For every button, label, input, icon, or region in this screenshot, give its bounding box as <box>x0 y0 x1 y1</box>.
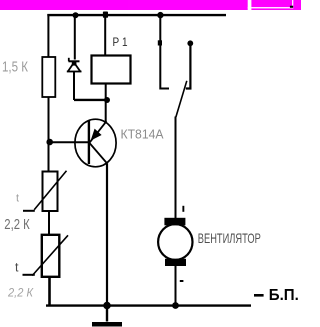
thermistor RK1 body <box>43 172 58 212</box>
node: base junction <box>46 139 53 146</box>
wire: lever to fan <box>175 117 177 219</box>
thermistor RK1 diagonal <box>34 171 66 210</box>
wire: bottom rail <box>46 304 251 306</box>
thermistor RK2 body <box>42 235 60 277</box>
contact lever <box>176 81 187 117</box>
node: top rail / relay branch <box>103 12 108 18</box>
contact right terminal dot <box>187 40 193 46</box>
wire: base wire <box>49 141 89 143</box>
svg-text:ВЕНТИЛЯТОР: ВЕНТИЛЯТОР <box>198 230 261 246</box>
magenta title bar <box>0 0 301 10</box>
node: collector / bottom rail <box>103 302 111 310</box>
ground <box>92 306 122 325</box>
plus mark <box>182 206 184 212</box>
wire: RK2 bottom to ground rail <box>48 277 51 306</box>
wire: zener anode down <box>73 72 75 101</box>
wire: relay coil bottom to Q1 emitter <box>105 84 107 123</box>
transistor Q1 KT814A <box>75 119 116 167</box>
minus mark <box>180 280 184 282</box>
wire: left drop to R1 <box>47 14 49 57</box>
svg-text:КТ814А: КТ814А <box>121 127 164 142</box>
resistor R1 body <box>42 57 55 97</box>
wire: top rail <box>47 14 226 16</box>
wire: Q1 collector down <box>106 164 108 306</box>
relay contact K1.1 right terminal <box>186 44 191 89</box>
thermistor RK1 diagonal foot <box>23 210 35 212</box>
fan motor M1 <box>158 218 192 266</box>
wire: R1 bottom to base node <box>48 97 50 172</box>
title bar black dash <box>290 6 293 8</box>
title bar inset box <box>248 0 294 10</box>
relay contact K1.1 left terminal <box>160 15 169 88</box>
wire: RK1 to RK2 <box>48 211 50 235</box>
svg-text:Б.П.: Б.П. <box>269 287 299 304</box>
wire: zener to relay-coil bottom <box>74 99 107 101</box>
label minus B.P. <box>254 287 299 304</box>
zener diode VD1 <box>67 58 82 72</box>
svg-text:1,5 К: 1,5 К <box>2 59 28 75</box>
contact left terminal dot <box>158 40 162 45</box>
relay coil P1 <box>92 56 131 84</box>
svg-text:2,2 К: 2,2 К <box>7 288 34 300</box>
node: fan / bottom rail <box>172 302 179 309</box>
wire: relay coil top <box>104 15 106 55</box>
thermistor RK2 diagonal <box>32 235 68 275</box>
wire: fan to bottom rail <box>175 266 177 306</box>
node: top rail / zener branch <box>73 12 79 18</box>
svg-text:t: t <box>15 261 19 275</box>
thermistor RK2 diagonal foot <box>23 274 35 276</box>
wire: zener drop from top rail <box>74 15 76 59</box>
node: top rail / contact branch <box>157 12 163 18</box>
svg-text:2,2 К: 2,2 К <box>4 217 30 233</box>
svg-text:Р 1: Р 1 <box>113 37 128 49</box>
node: relay coil bottom junction <box>104 97 110 103</box>
svg-text:t: t <box>16 193 19 205</box>
